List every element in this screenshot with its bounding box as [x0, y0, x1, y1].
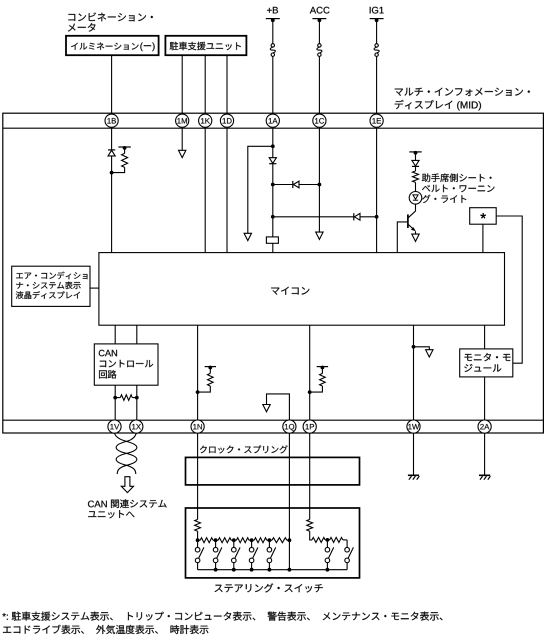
- node 1N pull-up: [196, 390, 200, 394]
- bottom rail: [198, 569, 348, 571]
- wire parking assist to 1K: [204, 55, 206, 113]
- wire IG1 to fuse: [376, 20, 378, 44]
- wire stub to diode: [415, 153, 417, 161]
- resistor chain right group: [312, 537, 325, 542]
- label CAN related line1: [88, 499, 167, 508]
- wire transistor base to microcomputer: [397, 222, 408, 253]
- resistor 1N pull-up: [209, 368, 211, 374]
- node on 1C line: [318, 183, 322, 187]
- label +B: [267, 7, 278, 13]
- label monitor module line1: [465, 353, 511, 361]
- resistor 1P input: [307, 519, 313, 531]
- node on 1E line: [375, 215, 379, 219]
- box parking assist unit: [165, 36, 246, 55]
- label parking assist unit: [170, 42, 241, 51]
- label seat belt warning line3: [422, 195, 466, 203]
- node right chain: [326, 538, 330, 542]
- fuse box on 1A line: [266, 237, 278, 243]
- box illumination(-): [66, 36, 159, 55]
- connector pin 1E: [370, 114, 383, 127]
- wire parking assist to 1M: [181, 55, 183, 113]
- wire 1Q up and left: [267, 394, 290, 420]
- wire 1C down: [318, 128, 320, 232]
- box air conditioner system display LCD: [12, 266, 90, 306]
- transistor Q1 emitter: [408, 224, 414, 230]
- connector pin 1V: [108, 420, 121, 433]
- fuse ACC: [318, 44, 321, 47]
- label CAN line2: [100, 360, 153, 367]
- wire microcomputer to 1P: [309, 325, 311, 420]
- wire aircon box to microcomputer: [90, 287, 99, 289]
- arrow into microcomputer (from 1A branch): [244, 233, 251, 240]
- block arrow to CAN system units: [121, 477, 133, 493]
- label seat belt warning line1: [422, 174, 492, 183]
- wire CAN box to 1X: [136, 385, 138, 420]
- top connector strip: [3, 127, 544, 129]
- MID unit outline: [3, 113, 544, 433]
- node 1P pull-up: [308, 390, 312, 394]
- label illumination(-): [71, 43, 138, 50]
- wire resistor to chain: [197, 531, 199, 540]
- label aircon line2: [16, 282, 80, 290]
- wire 1E to microcomputer: [376, 128, 378, 252]
- wire 1M input: [181, 128, 183, 150]
- label clock spring: [200, 445, 288, 453]
- box clock spring: [186, 457, 360, 485]
- ground wire 1W: [413, 433, 415, 475]
- wire CAN box to 1V: [114, 385, 116, 420]
- connector pin 2A: [478, 420, 491, 433]
- wire 1P resistor to right chain: [310, 531, 312, 540]
- node 1Q chain junction: [288, 538, 292, 542]
- connector pin 1X: [130, 420, 143, 433]
- switch SW1: [197, 540, 199, 547]
- supply stub 1N pull-up: [205, 366, 216, 368]
- wire resistor to 1B node: [112, 167, 125, 172]
- wire ACC to fuse: [318, 20, 320, 44]
- wire * box to monitor module: [496, 216, 522, 363]
- wire branch to left arrow: [248, 146, 273, 233]
- label IG1: [370, 7, 384, 14]
- arrow 1C into microcomputer: [316, 232, 323, 239]
- wire illumination to 1B: [111, 55, 113, 113]
- label monitor module line2: [464, 364, 501, 372]
- node 1A branch1: [271, 144, 275, 148]
- ground wire 2A: [484, 433, 486, 475]
- wire microcomputer to 1N: [197, 325, 199, 420]
- resistor CAN termination: [115, 397, 120, 399]
- connector pin 1K: [199, 114, 212, 127]
- label illumination minus: [140, 43, 154, 52]
- wire resistor to lamp: [415, 182, 417, 191]
- switch SW3: [233, 540, 235, 547]
- bottom connector strip: [3, 419, 544, 421]
- node 1A/1E diode branch: [271, 215, 275, 219]
- ground symbol 2A: [479, 474, 490, 476]
- node 1W stub: [412, 345, 416, 349]
- connector pin 1N: [191, 420, 204, 433]
- wire 1N through clock spring: [197, 433, 199, 519]
- wire 1K to microcomputer: [204, 128, 206, 252]
- wire monitor module to 2A: [484, 377, 486, 420]
- label seat belt warning line2: [422, 185, 494, 192]
- wire fuse box to microcomputer: [272, 243, 274, 252]
- label MID line2: [395, 100, 481, 111]
- switch SW6: [326, 540, 328, 547]
- wire * box to microcomputer: [482, 224, 484, 252]
- switch SW4: [251, 540, 253, 547]
- wire fuse B to connector: [272, 56, 274, 113]
- label aircon line3: [16, 291, 80, 299]
- wire 1N pull-up to node: [198, 386, 211, 392]
- node CAN-H termination: [113, 396, 117, 400]
- wire emitter down: [415, 231, 417, 234]
- connector pin 1D: [220, 114, 233, 127]
- wire lamp to transistor collector: [408, 204, 415, 218]
- wire 1Q to bottom rail: [288, 540, 290, 570]
- label combination meter: [68, 13, 152, 22]
- diode on 1A line: [269, 158, 276, 164]
- wire diode to resistor: [415, 166, 417, 171]
- box monitor module: [460, 349, 513, 377]
- box steering switch: [186, 508, 360, 578]
- arrow 1Q signal: [263, 405, 270, 412]
- resistor 1N input: [195, 519, 201, 531]
- resistor chain left group: [198, 539, 201, 541]
- diode seat belt lamp: [412, 160, 419, 166]
- ground symbol 1W: [408, 474, 419, 476]
- connector pin 1P: [303, 420, 316, 433]
- switch SW7: [345, 547, 350, 552]
- supply stub seat belt lamp: [409, 151, 421, 153]
- wire parking assist to 1D: [226, 55, 228, 113]
- twisted pair CAN wires: [115, 433, 137, 474]
- box CAN control circuit: [94, 344, 158, 385]
- connector pin 1B: [105, 114, 118, 127]
- wire fuse ACC to connector: [318, 56, 320, 113]
- label CAN line3: [99, 370, 116, 378]
- diode toward 1A from 1E: [353, 213, 355, 220]
- connector pin 1M: [176, 114, 189, 127]
- rail nodes: [214, 568, 218, 572]
- supply stub 1P pull-up: [317, 366, 328, 368]
- label CAN related line2: [88, 510, 134, 518]
- wire 1B down: [111, 128, 113, 150]
- wire 1A down: [272, 128, 274, 237]
- fuse B: [271, 44, 274, 47]
- wire diode branch to 1C: [273, 184, 320, 186]
- label aircon line1: [16, 272, 87, 280]
- switch SW5: [268, 540, 270, 547]
- supply stub for 1B resistor: [118, 146, 130, 148]
- label steering switch: [215, 583, 323, 592]
- label combination meter line2: [68, 23, 96, 32]
- wire microcomputer to 1W: [413, 325, 415, 420]
- transistor Q1 base bar: [407, 214, 409, 228]
- label CAN line1: [99, 350, 117, 357]
- connector pin 1Q: [283, 420, 296, 433]
- wire 1D to microcomputer: [226, 128, 228, 252]
- lamp passenger seat belt warning: [409, 192, 422, 205]
- connector pin 1C: [313, 114, 326, 127]
- connector pin 1A: [266, 114, 279, 127]
- connector pin 1W: [407, 420, 420, 433]
- power source ACC terminal: [312, 18, 326, 20]
- node CAN-L termination: [135, 396, 139, 400]
- wire CAN-L microcomputer to CAN box: [136, 325, 138, 344]
- box * display functions: [470, 208, 497, 225]
- diode toward 1A from 1C: [292, 181, 294, 188]
- fuse IG1: [375, 44, 378, 47]
- arrow emitter to ground: [412, 234, 419, 241]
- chain nodes: [196, 538, 200, 542]
- power source B terminal: [266, 18, 280, 20]
- power source IG1 terminal: [370, 18, 384, 20]
- label microcomputer: [271, 287, 309, 295]
- resistor seat belt lamp: [413, 171, 419, 182]
- wire B to fuse: [272, 20, 274, 44]
- node 1A/1C diode branch: [271, 183, 275, 187]
- node 1B/resistor junction: [110, 171, 114, 175]
- resistor 1B pull-up: [124, 148, 126, 153]
- wire CAN-H microcomputer to CAN box: [114, 325, 116, 344]
- arrow 1M into unit: [179, 150, 186, 157]
- label MID line1: [395, 88, 530, 96]
- wire diode branch to 1E: [273, 216, 377, 218]
- wire 1P pull-up to node: [310, 386, 323, 392]
- wire 1B diode to microcomputer: [111, 156, 113, 253]
- label ACC: [310, 7, 330, 14]
- wire microcomputer to monitor module: [484, 325, 486, 349]
- wire fuse IG1 to connector: [376, 56, 378, 113]
- corner right chain down: [346, 540, 348, 548]
- footnote line1: [2, 612, 442, 621]
- diode on 1B line: [108, 149, 115, 151]
- switch SW2: [215, 540, 217, 547]
- footnote line2: [3, 625, 208, 634]
- wire 1Q through clock spring: [288, 433, 290, 540]
- resistor 1P pull-up: [321, 368, 323, 374]
- op-amp/microcomputer box (maikon): [99, 253, 505, 326]
- stub arrow from 1W line: [414, 347, 430, 350]
- wire 1P through clock spring: [309, 433, 311, 519]
